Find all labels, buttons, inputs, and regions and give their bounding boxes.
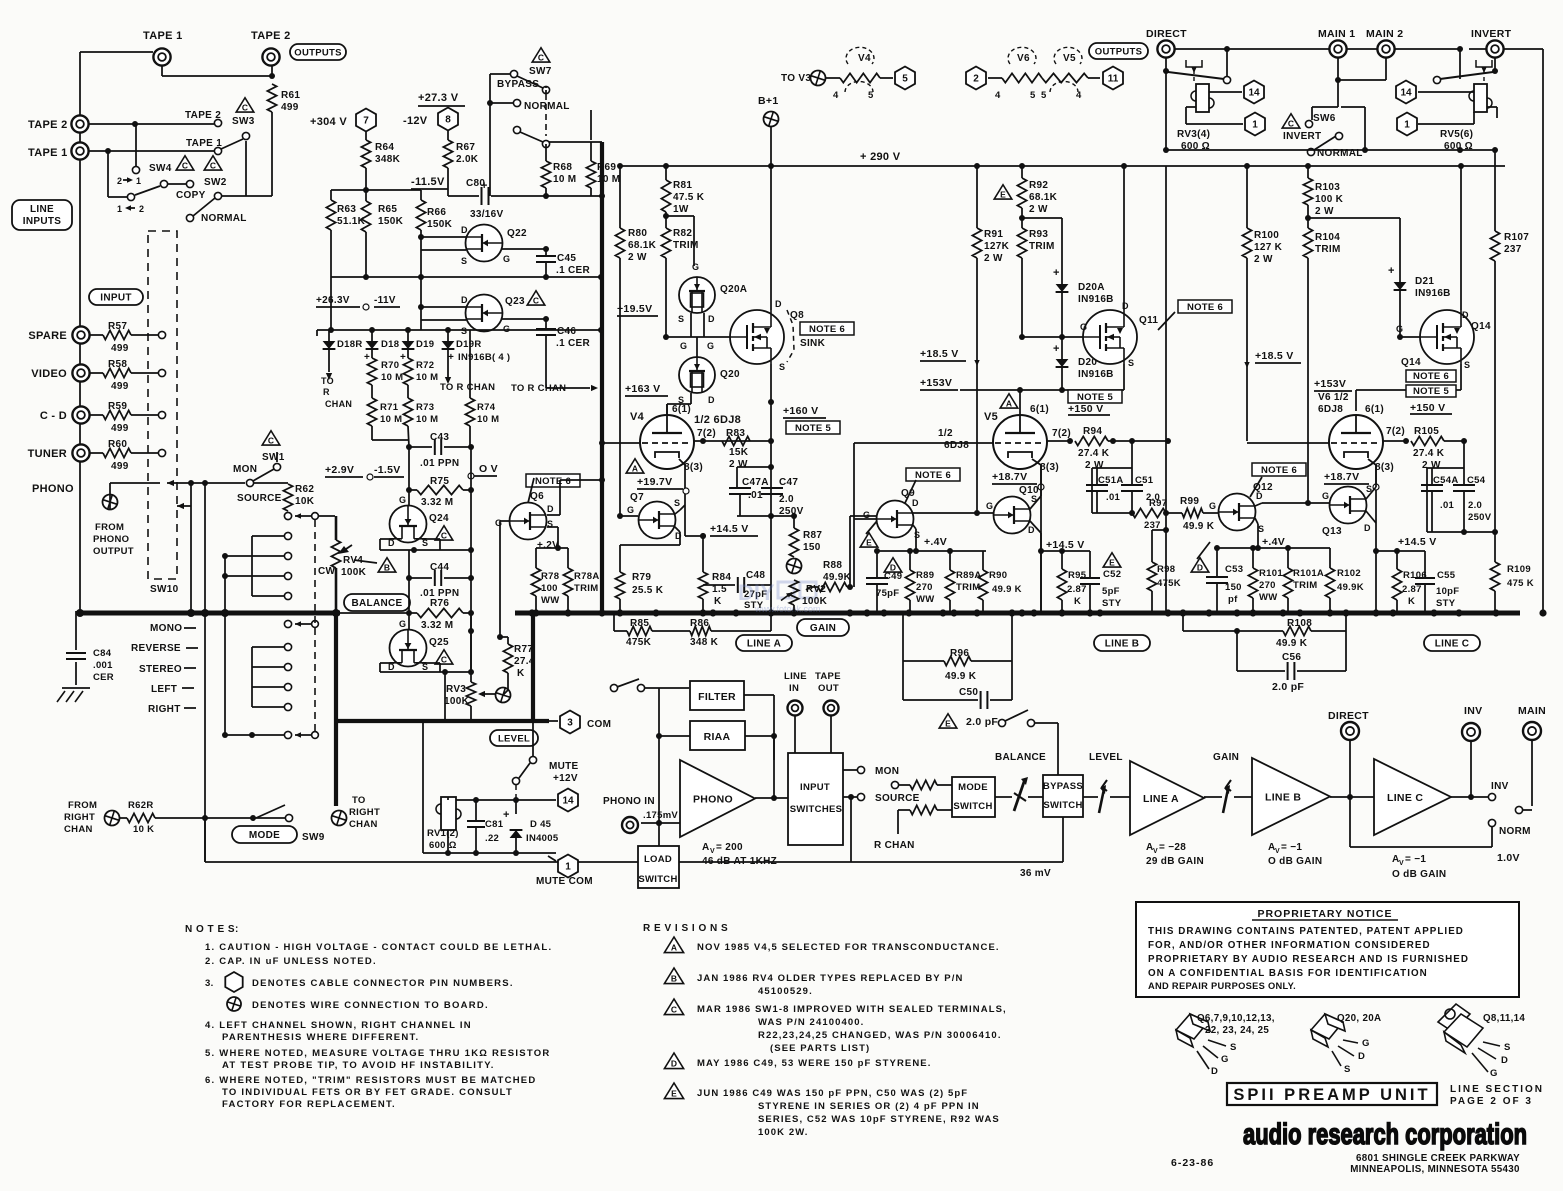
svg-text:8(3): 8(3) [684, 462, 703, 473]
svg-text:4: 4 [833, 90, 839, 101]
svg-text:D: D [1122, 301, 1129, 311]
svg-text:+: + [400, 352, 406, 363]
svg-text:RIGHT: RIGHT [349, 807, 380, 818]
svg-text:IN: IN [789, 683, 799, 694]
wire SW10 wiper bus [167, 480, 174, 486]
wire mode to bypass [995, 796, 1012, 798]
svg-text:R101A: R101A [1293, 568, 1324, 579]
connector from right chan [103, 809, 122, 828]
svg-text:O V: O V [479, 463, 498, 475]
svg-text:V6: V6 [1017, 53, 1030, 64]
svg-text:D18: D18 [381, 339, 399, 350]
svg-text:100 K: 100 K [1315, 194, 1344, 205]
svg-text:R22,23,24,25 CHANGED, WAS P: R22,23,24,25 CHANGED, WAS P/N 30006410. [758, 1030, 1002, 1041]
svg-text:R70: R70 [381, 360, 399, 371]
svg-text:Q11: Q11 [1139, 315, 1158, 326]
wire level thick [334, 719, 549, 723]
wire phono to selector [110, 482, 160, 484]
resistor R60 [90, 452, 103, 454]
svg-text:G: G [986, 501, 993, 511]
svg-text:D: D [1197, 563, 1203, 573]
svg-text:R104: R104 [1315, 232, 1340, 243]
svg-text:RV5(6): RV5(6) [1440, 129, 1473, 140]
svg-text:NOTE 6: NOTE 6 [1261, 465, 1297, 476]
switch SW9 lever [285, 814, 292, 821]
svg-text:G: G [1221, 1054, 1229, 1065]
svg-text:1.0V: 1.0V [1497, 852, 1520, 864]
wire tape output bus [80, 51, 153, 53]
svg-text:TAPE 2: TAPE 2 [251, 30, 291, 42]
svg-text:R100: R100 [1254, 230, 1279, 241]
svg-text:270: 270 [1259, 580, 1276, 591]
svg-text:INV: INV [1464, 705, 1482, 717]
svg-text:8: 8 [445, 115, 451, 126]
svg-text:1W: 1W [673, 204, 689, 215]
svg-text:E: E [1000, 190, 1006, 200]
svg-text:D: D [708, 395, 715, 405]
svg-text:NORM: NORM [1499, 826, 1531, 837]
node COM pin 3 [560, 711, 580, 734]
svg-text:SWITCH: SWITCH [1043, 800, 1082, 811]
svg-text:5pF: 5pF [1102, 586, 1120, 597]
wire rv5 coil wiring [1418, 91, 1474, 93]
svg-text:+14.5 V: +14.5 V [1398, 536, 1437, 548]
svg-text:R89: R89 [916, 570, 934, 581]
svg-text:499: 499 [281, 102, 299, 113]
svg-text:150K: 150K [427, 219, 453, 230]
svg-text:TAPE 1: TAPE 1 [28, 147, 68, 159]
svg-text:Q8: Q8 [790, 310, 804, 321]
wire line c feedback [1182, 613, 1184, 631]
svg-text:Q6,7,9,10,12,13,: Q6,7,9,10,12,13, [1197, 1013, 1275, 1024]
wire R62 to balance node [285, 513, 292, 520]
svg-text:R60: R60 [108, 439, 127, 450]
svg-text:D: D [461, 295, 468, 305]
svg-text:PARENTHESIS WHERE DIFFERENT.: PARENTHESIS WHERE DIFFERENT. [222, 1032, 419, 1043]
wire R80 column [619, 166, 621, 228]
capacitor C45 [545, 249, 547, 255]
resistor R62R [120, 817, 127, 819]
svg-text:R86: R86 [690, 618, 709, 629]
wire rv3 coil wiring [1209, 91, 1242, 93]
wire 36mv run [851, 861, 1063, 863]
diode D19R [442, 341, 455, 349]
svg-text:6. WHERE NOTED, "TRIM" RES: 6. WHERE NOTED, "TRIM" RESISTORS MUST BE… [205, 1075, 537, 1086]
heater V6 coil [988, 77, 1002, 79]
relay RV3 coil [1196, 84, 1209, 112]
svg-text:G: G [1080, 322, 1087, 332]
wire v4 cathode [679, 459, 685, 465]
svg-text:MUTE COM: MUTE COM [536, 876, 593, 887]
svg-text:DIRECT: DIRECT [1328, 710, 1369, 722]
svg-text:INVERT: INVERT [1283, 131, 1321, 142]
wire column B [204, 483, 206, 862]
wire line c feedback to norm [1349, 797, 1351, 847]
svg-text:SW9: SW9 [302, 832, 325, 843]
svg-text:D19R: D19R [456, 339, 482, 350]
svg-text:SPARE: SPARE [28, 330, 67, 342]
svg-text:14: 14 [1248, 88, 1260, 99]
wire q10 source up [1030, 496, 1041, 509]
svg-text:INPUT: INPUT [800, 782, 830, 793]
svg-text:4: 4 [1076, 90, 1082, 101]
svg-text:+150 V: +150 V [1410, 402, 1445, 414]
svg-text:LINE: LINE [30, 204, 54, 215]
wire line b feedback [902, 613, 904, 700]
svg-text:+: + [1388, 265, 1395, 277]
potentiometer RV1 [441, 797, 456, 830]
svg-text:6DJ8: 6DJ8 [1318, 404, 1343, 415]
svg-text:S: S [779, 362, 785, 372]
resistor R62 [254, 482, 288, 484]
svg-text:Q7: Q7 [630, 492, 644, 503]
wire q7 leads [620, 515, 638, 517]
svg-text:R63: R63 [337, 204, 356, 215]
resistor R106 [1396, 551, 1398, 569]
svg-text:G: G [503, 324, 510, 334]
svg-text:K: K [1074, 596, 1081, 607]
svg-text:25.5 K: 25.5 K [632, 585, 664, 596]
svg-text:.1 CER: .1 CER [556, 338, 591, 349]
wire bypass bottom [1062, 817, 1064, 862]
switch SW1 [262, 431, 280, 446]
node hex 14 mute [558, 789, 578, 812]
svg-text:2.0 pF: 2.0 pF [966, 716, 998, 728]
svg-text:47.5 K: 47.5 K [673, 192, 705, 203]
svg-text:LINE A: LINE A [1143, 793, 1179, 805]
svg-text:G: G [1396, 324, 1403, 334]
svg-text:STYRENE IN SERIES OR (2): STYRENE IN SERIES OR (2) 4 pF PPN IN [758, 1101, 980, 1112]
svg-text:46 dB AT 1KHZ: 46 dB AT 1KHZ [702, 856, 777, 867]
wire r83 node down [770, 402, 772, 613]
svg-text:VIDEO: VIDEO [31, 368, 67, 380]
wire r88 to q9 gate [849, 516, 851, 587]
svg-text:Q23: Q23 [505, 296, 525, 307]
wire v4 pin7 [694, 440, 771, 442]
svg-text:C: C [671, 1005, 677, 1015]
svg-text:R87: R87 [803, 530, 822, 541]
diode D19 [402, 341, 415, 349]
svg-text:B: B [671, 974, 677, 984]
svg-text:MONO: MONO [150, 623, 182, 634]
resistor R101A [1287, 548, 1289, 568]
svg-text:7(2): 7(2) [1052, 428, 1071, 439]
svg-text:LINE B: LINE B [1265, 792, 1301, 804]
svg-text:SW2: SW2 [204, 177, 227, 188]
svg-text:10pF: 10pF [1436, 586, 1459, 597]
svg-text:10 M: 10 M [416, 372, 438, 383]
svg-text:49.9 K: 49.9 K [992, 584, 1022, 595]
svg-text:Q13: Q13 [1322, 526, 1342, 537]
svg-text:D21: D21 [1415, 276, 1434, 287]
svg-text:+153V: +153V [920, 377, 952, 389]
heater V5 coil [1054, 47, 1082, 64]
svg-text:SINK: SINK [800, 338, 826, 349]
svg-text:R80: R80 [628, 228, 647, 239]
wire v4 plate up [666, 404, 668, 415]
svg-text:3.32 M: 3.32 M [421, 620, 453, 631]
svg-text:.175mV: .175mV [643, 810, 678, 821]
switch SW9 upper deck contacts [284, 532, 291, 539]
svg-text:DENOTES CABLE CONNECTOR PIN: DENOTES CABLE CONNECTOR PIN NUMBERS. [252, 978, 514, 989]
svg-text:.22: .22 [485, 833, 499, 844]
wire q20 drain down [690, 393, 692, 404]
label OUTPUTS right [1089, 43, 1148, 59]
svg-text:600 Ω: 600 Ω [429, 840, 457, 851]
node hex 1 rv5 [1397, 113, 1417, 136]
svg-text:C44: C44 [430, 562, 449, 573]
svg-text:2 W: 2 W [984, 253, 1003, 264]
wire r68 r69 bottoms [545, 188, 547, 196]
svg-text:49.9K: 49.9K [1337, 582, 1364, 593]
svg-text:D: D [671, 1059, 677, 1069]
svg-text:10 M: 10 M [416, 414, 438, 425]
wire q9 gate from r88 [853, 519, 855, 587]
svg-text:IN916B: IN916B [1078, 369, 1114, 380]
svg-text:TO: TO [321, 376, 334, 386]
marker D c49 [884, 558, 902, 573]
svg-text:V: V [1153, 848, 1158, 855]
potentiometer RV3 [470, 612, 472, 682]
svg-text:6(1): 6(1) [1030, 404, 1049, 415]
marker A v5 [1000, 394, 1018, 409]
svg-text:499: 499 [111, 461, 129, 472]
svg-text:S: S [914, 530, 920, 540]
connector r87 wiper [785, 557, 804, 576]
resistor R98 [1151, 530, 1153, 562]
svg-text:R72: R72 [416, 360, 434, 371]
box LOAD SWITCH [658, 823, 660, 846]
svg-text:R109: R109 [1507, 564, 1531, 575]
label INPUT [89, 289, 143, 305]
svg-text:27.4: 27.4 [514, 656, 535, 667]
wire +.4 node v6 [1217, 547, 1330, 549]
resistor R63 [330, 190, 332, 200]
svg-text:NORMAL: NORMAL [201, 213, 247, 224]
svg-text:LEVEL: LEVEL [498, 733, 530, 744]
box FILTER [690, 681, 744, 710]
svg-text:R94: R94 [1083, 426, 1102, 437]
svg-text:.001: .001 [93, 660, 113, 671]
svg-text:R E V I S I O N S: R E V I S I O N S [643, 923, 728, 934]
svg-text:A: A [632, 464, 638, 474]
wire q14 drain [1460, 166, 1462, 310]
svg-text:1. CAUTION - HIGH VOLTAGE -: 1. CAUTION - HIGH VOLTAGE - CONTACT COUL… [205, 942, 552, 953]
transistor Q22 [466, 225, 503, 262]
wire r chan 2 [910, 805, 937, 814]
svg-text:TRIM: TRIM [673, 240, 699, 251]
wire bypass to line a [1083, 796, 1098, 798]
svg-text:pf: pf [1228, 594, 1238, 605]
resistor R64 [361, 140, 370, 168]
transistor Q8 mosfet [730, 310, 784, 364]
svg-text:D: D [1364, 523, 1371, 533]
resistor R82 [665, 212, 667, 228]
svg-text:CHAN: CHAN [325, 399, 352, 409]
svg-text:2 W: 2 W [1085, 460, 1104, 471]
svg-text:C: C [441, 655, 447, 665]
capacitor C54A C54 box [1427, 467, 1464, 469]
svg-text:R71: R71 [380, 402, 399, 413]
svg-text:JAN 1986 RV4 OLDER TYPES R: JAN 1986 RV4 OLDER TYPES REPLACED BY P/N [697, 973, 963, 984]
resistor R87 [793, 516, 795, 528]
wire source down [850, 797, 852, 862]
svg-text:S: S [461, 256, 467, 266]
svg-text:SW4: SW4 [149, 163, 172, 174]
label LEVEL [490, 730, 538, 746]
wire -11.5 node [366, 189, 421, 191]
wire far right rail [1542, 49, 1544, 613]
svg-text:V: V [710, 848, 715, 855]
svg-text:C51A: C51A [1098, 475, 1124, 486]
svg-text:NOTE 5: NOTE 5 [1413, 386, 1450, 397]
svg-text:CER: CER [93, 672, 114, 683]
wire q6 leads [547, 514, 560, 516]
wire +14.5 node v6 [1376, 550, 1425, 552]
svg-text:O dB GAIN: O dB GAIN [1268, 856, 1322, 867]
svg-text:O dB GAIN: O dB GAIN [1392, 869, 1446, 880]
svg-text:C45: C45 [557, 253, 576, 264]
svg-text:TAPE 1: TAPE 1 [143, 30, 183, 42]
svg-text:C53: C53 [1225, 564, 1243, 575]
svg-text:R66: R66 [427, 207, 446, 218]
svg-text:R68: R68 [553, 162, 572, 173]
svg-text:C: C [538, 53, 544, 63]
resistor R66 [420, 190, 422, 200]
svg-text:2.0: 2.0 [779, 494, 794, 505]
svg-text:15K: 15K [729, 447, 749, 458]
transistor Q12 [1252, 463, 1306, 476]
wire q8 drain top [770, 166, 772, 310]
svg-text:SOURCE: SOURCE [875, 793, 920, 804]
svg-text:NORMAL: NORMAL [524, 101, 570, 112]
wire q10 drain down [1030, 521, 1041, 533]
svg-text:6801 SHINGLE CREEK PARKWAY: 6801 SHINGLE CREEK PARKWAY [1356, 1153, 1520, 1164]
svg-text:D 45: D 45 [530, 819, 552, 830]
svg-text:STEREO: STEREO [139, 664, 182, 675]
svg-text:S: S [1464, 360, 1470, 370]
resistor R71 [371, 385, 373, 398]
svg-text:SPII PREAMP UNIT: SPII PREAMP UNIT [1233, 1086, 1430, 1104]
node hex 14 rv5 [1396, 81, 1416, 104]
svg-text:2: 2 [139, 204, 144, 214]
svg-text:27.4 K: 27.4 K [1413, 448, 1445, 459]
svg-text:G: G [680, 341, 687, 351]
svg-text:475 K: 475 K [1507, 578, 1534, 589]
box proprietary notice [1136, 902, 1519, 997]
marker E c50 [939, 714, 957, 729]
svg-text:+: + [364, 352, 370, 363]
svg-text:V4: V4 [858, 53, 871, 64]
svg-text:audio research corporation: audio research corporation [1243, 1118, 1527, 1151]
marker B [378, 558, 396, 573]
svg-text:E: E [866, 538, 872, 548]
resistor R72 [407, 349, 409, 358]
package Q6 group [1176, 1014, 1226, 1069]
relay RV3 contact [1226, 49, 1228, 78]
svg-text:NOTE 6: NOTE 6 [1187, 302, 1223, 313]
wire filter loop [744, 694, 774, 696]
svg-text:270: 270 [916, 582, 933, 593]
wire to SW10 contact [131, 452, 158, 454]
svg-text:1: 1 [1252, 120, 1258, 131]
svg-text:-11.5V: -11.5V [411, 176, 445, 188]
svg-text:R CHAN: R CHAN [874, 840, 915, 851]
wire 26v node [330, 230, 332, 330]
wire tape2 to SW3 [89, 123, 214, 125]
amplifier PHONO [680, 760, 755, 837]
svg-text:V: V [1399, 860, 1404, 867]
svg-text:.1 CER: .1 CER [556, 265, 591, 276]
svg-text:SW1: SW1 [262, 452, 285, 463]
svg-text:51.1K: 51.1K [337, 216, 366, 227]
svg-text:IN916B: IN916B [1415, 288, 1451, 299]
svg-text:D: D [708, 314, 715, 324]
svg-text:Q6: Q6 [530, 491, 544, 502]
svg-text:R82: R82 [673, 228, 692, 239]
resistor R67 [447, 131, 449, 140]
svg-text:BALANCE: BALANCE [995, 752, 1046, 763]
wire sw6 to rv5 [1341, 106, 1365, 108]
wire r81 r82 junction [663, 213, 669, 219]
svg-text:R64: R64 [375, 142, 394, 153]
svg-text:10 M: 10 M [381, 372, 403, 383]
svg-text:TRIM: TRIM [1029, 241, 1055, 252]
switch MON contact [843, 769, 857, 771]
svg-text:LINE SECTION: LINE SECTION [1450, 1084, 1544, 1095]
svg-text:R74: R74 [477, 402, 496, 413]
capacitor C55 [1424, 551, 1426, 577]
svg-text:R77: R77 [514, 644, 533, 655]
svg-text:-12V: -12V [403, 115, 428, 127]
svg-text:D20A: D20A [1078, 282, 1105, 293]
svg-text:E: E [945, 719, 951, 729]
svg-text:14: 14 [1400, 88, 1412, 99]
svg-text:WAS P/N 24100400.: WAS P/N 24100400. [758, 1017, 864, 1028]
diode D45 [515, 800, 517, 814]
svg-text:SW7: SW7 [529, 66, 552, 77]
svg-text:R102: R102 [1337, 568, 1361, 579]
resistor R95 [1061, 551, 1063, 569]
relay RV5 coil [1474, 84, 1487, 112]
svg-text:G: G [399, 495, 406, 505]
svg-text:.01: .01 [748, 490, 763, 501]
svg-text:1/2: 1/2 [938, 428, 953, 439]
svg-text:Q25: Q25 [429, 637, 449, 648]
svg-text:2.0K: 2.0K [456, 154, 479, 165]
svg-text:INPUTS: INPUTS [23, 216, 61, 227]
svg-text:2 W: 2 W [1254, 254, 1273, 265]
svg-text:-11V: -11V [374, 295, 396, 306]
svg-text:C: C [1288, 119, 1294, 129]
balance pot arrow [1014, 779, 1025, 811]
resistor R74 [469, 330, 471, 398]
svg-text:SOURCE: SOURCE [237, 493, 282, 504]
svg-text:E: E [671, 1089, 677, 1099]
svg-text:PHONO: PHONO [32, 483, 74, 495]
svg-text:RIGHT: RIGHT [148, 704, 181, 715]
wire line a to b [1204, 796, 1222, 798]
svg-text:150K: 150K [378, 216, 404, 227]
svg-text:K: K [517, 668, 525, 679]
svg-text:2 W: 2 W [729, 459, 748, 470]
resistor R70 [371, 349, 373, 358]
ground [62, 687, 90, 689]
svg-text:JUN 1986 C49 WAS 150 pF P: JUN 1986 C49 WAS 150 pF PPN, C50 WAS (2)… [697, 1088, 968, 1099]
resistor R101 [1252, 548, 1254, 568]
svg-text:TO: TO [352, 795, 366, 806]
marker E R92 [994, 185, 1012, 200]
